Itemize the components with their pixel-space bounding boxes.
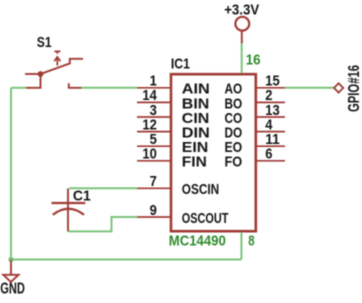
wire: switch right contact to pin 1 AIN (82, 87, 138, 89)
svg-text:IC1: IC1 (171, 55, 190, 72)
svg-text:GND: GND (0, 281, 25, 298)
svg-text:10: 10 (142, 146, 156, 163)
pin 7 OSCIN stub (137, 187, 170, 189)
S1 actuator (54, 51, 60, 53)
ground symbol GND (10, 260, 12, 275)
svg-text:S1: S1 (37, 34, 52, 51)
wire: pin 15 AO to GPIO#16 port (285, 87, 334, 89)
svg-text:OSCIN: OSCIN (182, 181, 219, 198)
svg-text:GPIO#16: GPIO#16 (346, 65, 362, 112)
pin 9 OSCOUT stub (137, 216, 170, 218)
wire: +3.3V supply down to pin 16 (241, 43, 243, 73)
svg-text:FIN: FIN (182, 154, 207, 171)
S1 pivot lead (25, 73, 41, 75)
svg-text:MC14490: MC14490 (169, 234, 226, 250)
S1 pivot drop to net (26, 74, 41, 88)
S1 lever (41, 59, 84, 74)
wire: switch left to GND net (11, 87, 26, 89)
IC1 pin stubs right: pins 15,2,13,4,11,6 (256, 88, 285, 161)
svg-text:16: 16 (246, 52, 261, 69)
junction: GND net junction dot (8, 257, 13, 262)
port diamond GPIO#16 (334, 83, 343, 92)
svg-text:6: 6 (265, 146, 272, 163)
svg-text:7: 7 (150, 173, 157, 190)
wire: C1 top to pin 7 OSCIN (69, 187, 138, 189)
wire: pin 8 down to GND net (240, 231, 242, 260)
switch S1 (25, 51, 83, 87)
svg-text:9: 9 (150, 202, 157, 219)
svg-text:+3.3V: +3.3V (224, 3, 259, 19)
S1 pivot dot (38, 71, 44, 77)
IC1 pin stubs left: pins 1,14,3,12,5,10 (137, 88, 170, 217)
wire: left vertical GND net (10, 88, 12, 260)
wire: C1 bottom to pin 9 OSCOUT (68, 217, 138, 231)
svg-text:C1: C1 (73, 188, 91, 205)
supply pin lead (241, 31, 243, 44)
svg-text:FO: FO (225, 154, 243, 171)
wire: bottom horizontal GND net (11, 259, 241, 261)
C1 vertical lead (67, 189, 69, 232)
capacitor C1 (52, 189, 86, 232)
op IC1 MC14490 body (171, 74, 256, 231)
C1 top plate (52, 202, 86, 204)
supply +3.3V symbol (235, 17, 249, 31)
svg-text:8: 8 (248, 232, 254, 249)
svg-text:OSCOUT: OSCOUT (182, 210, 229, 227)
C1 bottom curved plate (53, 209, 84, 215)
S1 right contact (69, 83, 82, 88)
